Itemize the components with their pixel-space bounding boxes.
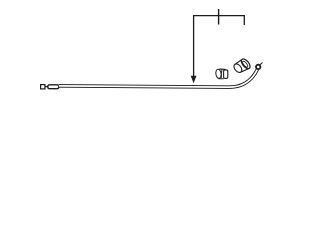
rod shaft outer [59, 70, 257, 88]
ball tip [256, 65, 260, 69]
tick mark on bracket [218, 9, 220, 25]
rod shaft inner highlight [59, 70, 257, 88]
bracket callout [194, 16, 245, 77]
right bead [232, 57, 251, 74]
connector stub [45, 86, 48, 88]
rod end square [41, 85, 45, 89]
ferrule pill [48, 85, 59, 89]
ball stub [260, 63, 263, 65]
left bead [215, 69, 228, 79]
arrowhead [191, 76, 197, 84]
